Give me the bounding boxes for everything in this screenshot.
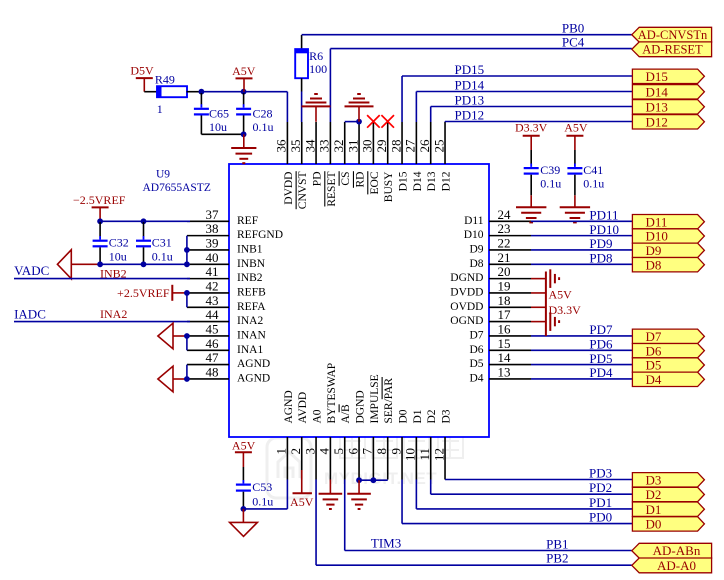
svg-text:C41: C41	[583, 163, 603, 177]
port D7	[632, 329, 704, 343]
pin 35 CNVST (top)	[288, 122, 309, 209]
wire PB2 net from pin 3	[316, 480, 632, 566]
wire PB1/TIM3 net from pin 5	[345, 480, 632, 551]
svg-text:PD0: PD0	[589, 510, 612, 525]
svg-text:DGND: DGND	[450, 272, 483, 284]
svg-text:21: 21	[498, 250, 511, 265]
capacitor C32	[93, 222, 129, 264]
svg-text:0.1u: 0.1u	[252, 494, 273, 508]
svg-text:29: 29	[374, 140, 389, 153]
svg-text:38: 38	[206, 221, 219, 236]
pin 34 PD (top)	[302, 122, 323, 186]
wire PD11 net from pin 24	[531, 220, 632, 222]
wire pins 47-48 tie	[186, 365, 188, 379]
svg-text:26: 26	[417, 139, 432, 153]
pin 12 D3 (bottom)	[431, 409, 452, 479]
pin 17 OGND (right)	[450, 307, 531, 327]
svg-text:REFA: REFA	[237, 301, 266, 313]
svg-text:EOC: EOC	[369, 171, 381, 194]
svg-text:23: 23	[498, 221, 511, 236]
svg-text:BYTESWAP: BYTESWAP	[326, 363, 338, 424]
svg-text:25: 25	[431, 140, 446, 153]
svg-text:D0: D0	[397, 409, 409, 423]
svg-text:5: 5	[331, 448, 346, 455]
port AD-RESET	[632, 42, 712, 57]
pin 6 DGND (bottom)	[345, 390, 366, 479]
svg-text:SER/PAR: SER/PAR	[383, 378, 395, 424]
svg-text:10: 10	[403, 448, 418, 461]
pin 28 D15 (top)	[388, 122, 409, 191]
pin 23 D10 (right)	[464, 221, 531, 241]
svg-text:42: 42	[206, 279, 219, 294]
ground below C41	[560, 195, 590, 222]
wire pin 18 OVDD stub	[531, 306, 546, 308]
svg-text:D7: D7	[646, 329, 662, 344]
node junction C31 bottom	[141, 261, 147, 267]
pin 45 INAN (left)	[187, 322, 266, 342]
wire pins 6-8 tie	[359, 479, 388, 481]
pin 40 INBN (left)	[187, 250, 266, 270]
svg-text:REFB: REFB	[237, 287, 266, 299]
svg-text:IADC: IADC	[14, 306, 46, 321]
svg-text:BUSY: BUSY	[383, 171, 395, 202]
node junction R49/C65	[199, 89, 205, 95]
svg-text:VADC: VADC	[14, 263, 49, 278]
pin 27 D14 (top)	[403, 122, 424, 191]
wire PD2 net from pin 11	[431, 480, 633, 495]
svg-text:27: 27	[403, 139, 418, 153]
node junction A5V/C28	[241, 89, 247, 95]
svg-text:D10: D10	[464, 229, 484, 241]
wire PD6 net from pin 15	[531, 349, 632, 351]
svg-text:U9: U9	[156, 168, 170, 180]
port D10	[632, 229, 704, 243]
pin 38 REFGND (left)	[187, 221, 283, 241]
svg-text:4: 4	[317, 448, 332, 455]
power port A5V (C41)	[564, 120, 588, 150]
svg-text:D0: D0	[646, 517, 662, 532]
pin 15 D6 (right)	[469, 336, 531, 356]
wire PD12 net from pin 25	[445, 121, 632, 124]
svg-text:+2.5VREF: +2.5VREF	[117, 286, 170, 300]
svg-text:TIM3: TIM3	[371, 536, 401, 551]
node junction pin 6	[356, 477, 362, 483]
svg-text:INA2: INA2	[237, 315, 263, 327]
power port -2.5VREF	[73, 193, 126, 221]
svg-text:RD: RD	[354, 172, 366, 188]
wire C65/C28 ground rail	[201, 133, 243, 135]
svg-text:DVDD: DVDD	[283, 172, 295, 205]
svg-text:MYDIGIT.NET: MYDIGIT.NET	[324, 469, 437, 488]
capacitor C39	[524, 150, 562, 195]
pin 32 CS (top)	[331, 122, 352, 186]
wire PD1 net from pin 10	[416, 480, 632, 509]
svg-text:INB2: INB2	[100, 266, 127, 280]
pin 48 AGND (left)	[187, 365, 270, 385]
wire VADC net to pin 41	[14, 278, 190, 280]
node junction pin 31	[356, 119, 362, 125]
port D14	[632, 85, 704, 99]
pin 2 AVDD (bottom)	[288, 392, 309, 480]
node junction pin 39	[184, 247, 190, 253]
svg-text:D1: D1	[646, 502, 662, 517]
wire PD14 net from pin 27	[416, 92, 632, 123]
svg-text:3: 3	[302, 448, 317, 455]
pin 43 REFA (left)	[187, 293, 266, 313]
input arrow AGND	[158, 366, 173, 392]
wire PB0 net	[302, 34, 632, 36]
svg-text:14: 14	[498, 350, 512, 365]
wire PD4 net from pin 13	[531, 378, 632, 380]
svg-text:AGND: AGND	[237, 358, 270, 370]
watermark	[267, 438, 311, 498]
pin 4 BYTESWAP (bottom)	[317, 363, 338, 480]
pin 5 A/B (bottom)	[331, 404, 352, 480]
svg-text:7: 7	[360, 448, 375, 455]
power port D3.3V (C39)	[515, 120, 548, 150]
svg-text:C31: C31	[152, 235, 172, 249]
svg-text:D6: D6	[469, 344, 483, 356]
input arrow VADC/INBN	[57, 250, 71, 279]
svg-text:OVDD: OVDD	[450, 301, 483, 313]
svg-text:D15: D15	[397, 171, 409, 191]
svg-text:CS: CS	[340, 172, 352, 186]
svg-text:D4: D4	[646, 372, 662, 387]
svg-text:INA1: INA1	[237, 344, 263, 356]
svg-text:INA2: INA2	[100, 307, 127, 321]
capacitor C41	[567, 150, 604, 195]
svg-text:D3: D3	[440, 409, 452, 423]
svg-text:PD10: PD10	[589, 222, 619, 237]
op-amp U9 AD7655ASTZ IC body	[229, 164, 489, 437]
power port +2.5VREF	[117, 285, 187, 301]
svg-text:AD-CNVSTn: AD-CNVSTn	[638, 28, 708, 42]
pin 47 AGND (left)	[187, 350, 270, 370]
svg-text:100: 100	[309, 62, 327, 76]
pin 20 DGND (right)	[450, 264, 531, 284]
svg-text:17: 17	[498, 307, 512, 322]
svg-text:A5V: A5V	[290, 495, 314, 509]
svg-text:REFGND: REFGND	[237, 229, 283, 241]
wire pin 17 OGND stub	[531, 321, 546, 323]
resistor R6	[295, 35, 327, 92]
svg-text:39: 39	[206, 236, 219, 251]
wire pin 19 DVDD stub	[531, 292, 546, 294]
wire REF net pin 37	[100, 220, 190, 222]
svg-text:PD5: PD5	[589, 351, 612, 366]
pin 10 D1 (bottom)	[403, 409, 424, 479]
pin 26 D13 (top)	[417, 122, 438, 191]
port D0	[632, 517, 704, 531]
wire CS to RD jumper	[345, 121, 359, 123]
port D12	[632, 115, 704, 129]
svg-text:44: 44	[206, 307, 220, 322]
svg-text:D9: D9	[646, 243, 662, 258]
no-connect X on pin 30 EOC	[367, 115, 380, 128]
node junction C32 top	[97, 218, 103, 224]
svg-text:20: 20	[498, 264, 511, 279]
svg-text:PB0: PB0	[562, 21, 584, 36]
power bar rail pins 20-17	[545, 272, 547, 337]
capacitor C65	[194, 93, 229, 134]
ground below C39	[516, 195, 546, 222]
svg-text:PD15: PD15	[455, 62, 485, 77]
svg-text:31: 31	[345, 140, 360, 153]
port D9	[632, 243, 704, 257]
node junction pin 42	[184, 290, 190, 296]
pin 11 D2 (bottom)	[417, 409, 438, 479]
ground on pin 31 RD (flipped)	[345, 94, 374, 122]
svg-text:RESET: RESET	[326, 172, 338, 207]
svg-text:AD-A0: AD-A0	[657, 558, 696, 573]
power port A5V pin 2 AVDD	[290, 470, 314, 509]
svg-text:PD2: PD2	[589, 480, 612, 495]
svg-text:IMPULSE: IMPULSE	[369, 374, 381, 423]
svg-text:24: 24	[498, 207, 512, 222]
svg-text:36: 36	[274, 139, 289, 153]
ground pin 4 BYTESWAP	[319, 480, 343, 510]
svg-text:DGND: DGND	[354, 390, 366, 423]
svg-text:D13: D13	[646, 100, 668, 115]
wire pins 42-43 tie	[186, 293, 188, 307]
svg-text:1: 1	[157, 102, 163, 116]
svg-text:48: 48	[206, 365, 219, 380]
port D5	[632, 358, 704, 372]
svg-text:OGND: OGND	[450, 315, 483, 327]
capacitor C53	[236, 467, 273, 509]
port D15	[632, 69, 704, 83]
pin 41 INB2 (left)	[187, 264, 263, 284]
power port A5V (C53)	[232, 438, 256, 467]
svg-text:33: 33	[317, 140, 332, 153]
no-connect X on pin 29 BUSY	[381, 115, 394, 128]
svg-text:C53: C53	[252, 480, 272, 494]
pin 3 A0 (bottom)	[302, 409, 323, 479]
node junction pin 45	[184, 333, 190, 339]
node junction C53 bottom	[241, 506, 247, 512]
wire R6 to pin 35	[301, 92, 303, 123]
port AD-ABn	[632, 543, 712, 558]
svg-text:10u: 10u	[109, 250, 127, 264]
svg-text:0.1u: 0.1u	[583, 177, 604, 191]
svg-text:D3: D3	[646, 473, 662, 488]
svg-text:PD12: PD12	[455, 108, 485, 123]
svg-text:AD7655ASTZ: AD7655ASTZ	[143, 182, 211, 194]
svg-text:D11: D11	[464, 215, 484, 227]
wire INBN rail	[100, 263, 190, 265]
svg-text:8: 8	[374, 448, 389, 455]
svg-text:9: 9	[388, 448, 403, 455]
svg-text:D3.3V: D3.3V	[515, 120, 548, 134]
node junction INBN rail / pin 40	[184, 261, 190, 267]
wire pins 38-40 tie	[186, 236, 188, 265]
wire PD10 net from pin 23	[531, 235, 632, 237]
pin 1 AGND (bottom)	[274, 390, 295, 479]
pin 14 D5 (right)	[469, 350, 531, 370]
svg-text:PD4: PD4	[589, 365, 613, 380]
port AD-CNVSTn	[632, 27, 712, 42]
wire pin 20 DGND stub	[531, 278, 546, 280]
svg-text:19: 19	[498, 279, 511, 294]
svg-text:PD3: PD3	[589, 466, 612, 481]
node junction pin 7	[370, 477, 376, 483]
svg-text:AGND: AGND	[237, 373, 270, 385]
svg-text:PD: PD	[311, 172, 323, 187]
pin 42 REFB (left)	[187, 279, 266, 299]
svg-text:D10: D10	[646, 229, 668, 244]
wire PD8 net from pin 21	[531, 263, 632, 265]
svg-text:D14: D14	[646, 85, 669, 100]
wire PD9 net from pin 22	[531, 249, 632, 251]
wire IADC net to pin 44	[14, 321, 190, 323]
ground (rotated) pin 17	[549, 312, 551, 331]
svg-text:0.1u: 0.1u	[152, 250, 173, 264]
svg-text:R49: R49	[155, 73, 175, 87]
svg-text:45: 45	[206, 322, 219, 337]
svg-text:32: 32	[331, 140, 346, 153]
ground on pin 34 PD (flipped)	[302, 94, 331, 122]
svg-text:−2.5VREF: −2.5VREF	[73, 193, 126, 207]
svg-text:D9: D9	[469, 244, 483, 256]
svg-text:AGND: AGND	[283, 390, 295, 423]
wire arrow to C32	[71, 263, 100, 265]
pin 39 INB1 (left)	[187, 236, 263, 256]
port D1	[632, 502, 704, 516]
wire arrow to pin 48	[173, 378, 187, 380]
svg-text:35: 35	[288, 140, 303, 153]
pin 33 RESET (top)	[317, 122, 338, 207]
wire C53 to pin 1	[243, 480, 287, 509]
port D4	[632, 372, 704, 386]
svg-text:34: 34	[302, 139, 317, 153]
svg-text:D5: D5	[469, 358, 483, 370]
svg-text:46: 46	[206, 336, 220, 351]
wire PD7 net from pin 16	[531, 335, 632, 337]
pin 36 DVDD (top)	[274, 122, 295, 205]
wire PD3 net from pin 12	[445, 479, 632, 481]
pin 25 D12 (top)	[431, 122, 452, 191]
svg-text:C39: C39	[540, 163, 560, 177]
svg-text:D15: D15	[646, 69, 668, 84]
svg-text:1: 1	[274, 448, 289, 455]
wire A5V rail to pin 36	[202, 91, 287, 93]
svg-text:D6: D6	[646, 343, 662, 358]
svg-text:A5V: A5V	[232, 438, 256, 452]
svg-text:30: 30	[360, 140, 375, 153]
wire PC4 net from pin 33	[330, 49, 631, 122]
svg-text:INB2: INB2	[237, 272, 263, 284]
svg-text:PD6: PD6	[589, 336, 613, 351]
pin 9 D0 (bottom)	[388, 409, 409, 479]
svg-text:PD8: PD8	[589, 250, 612, 265]
svg-text:PD11: PD11	[589, 208, 618, 223]
svg-text:A/B: A/B	[340, 404, 352, 424]
svg-text:D12: D12	[440, 171, 452, 191]
port D3	[632, 473, 704, 487]
svg-text:PD13: PD13	[455, 93, 485, 108]
svg-text:47: 47	[206, 350, 220, 365]
pin 18 OVDD (right)	[450, 293, 531, 313]
pin 46 INA1 (left)	[187, 336, 263, 356]
pin 22 D9 (right)	[469, 236, 531, 256]
ground below C65/C28	[231, 134, 256, 163]
svg-text:A5V: A5V	[232, 64, 256, 78]
svg-text:INAN: INAN	[237, 330, 266, 342]
svg-text:PD14: PD14	[455, 78, 485, 93]
port D13	[632, 100, 704, 114]
svg-text:2: 2	[288, 448, 303, 455]
svg-text:A0: A0	[311, 409, 323, 423]
pin 7 IMPULSE (bottom)	[360, 374, 381, 479]
wire PD13 net from pin 26	[431, 107, 633, 123]
node junction C28 ground	[241, 131, 247, 137]
port D2	[632, 487, 704, 501]
pin 24 D11 (right)	[464, 207, 531, 227]
svg-text:11: 11	[417, 448, 432, 461]
svg-text:D12: D12	[646, 115, 668, 130]
svg-text:A5V: A5V	[564, 120, 588, 134]
svg-text:PB1: PB1	[546, 537, 568, 552]
svg-text:43: 43	[206, 293, 219, 308]
wire PD15 net from pin 28	[402, 76, 632, 122]
svg-text:D8: D8	[646, 257, 662, 272]
ground (rotated) pin 20	[549, 269, 551, 288]
svg-text:PD1: PD1	[589, 495, 612, 510]
input arrow INAN	[158, 323, 173, 349]
svg-text:PD7: PD7	[589, 322, 613, 337]
node junction C31 top	[141, 218, 147, 224]
svg-text:D3.3V: D3.3V	[549, 303, 582, 317]
svg-text:AD-RESET: AD-RESET	[642, 43, 703, 57]
svg-text:D7: D7	[469, 330, 483, 342]
node junction C32 bottom	[97, 261, 103, 267]
ground pin 6 DGND	[347, 480, 371, 509]
wire D5V to R49	[144, 91, 157, 93]
svg-text:D5: D5	[646, 358, 662, 373]
svg-text:CNVST: CNVST	[297, 172, 309, 210]
svg-text:C32: C32	[109, 235, 129, 249]
wire PD5 net from pin 14	[531, 364, 632, 366]
svg-text:C28: C28	[253, 107, 273, 121]
svg-text:D14: D14	[412, 171, 424, 191]
svg-text:D13: D13	[426, 171, 438, 191]
svg-text:0.1u: 0.1u	[253, 120, 274, 134]
svg-text:INB1: INB1	[237, 244, 263, 256]
pin 21 D8 (right)	[469, 250, 531, 270]
svg-text:PD9: PD9	[589, 236, 612, 251]
capacitor C28	[236, 93, 273, 134]
svg-text:PB2: PB2	[546, 551, 568, 566]
pin 37 REF (left)	[187, 207, 258, 227]
pin 19 DVDD (right)	[450, 279, 531, 299]
capacitor C31	[136, 222, 173, 264]
svg-text:REF: REF	[237, 215, 258, 227]
svg-text:0.1u: 0.1u	[540, 177, 561, 191]
svg-text:PC4: PC4	[562, 35, 585, 50]
svg-text:28: 28	[388, 140, 403, 153]
svg-text:40: 40	[206, 250, 219, 265]
svg-text:22: 22	[498, 236, 511, 251]
pin 13 D4 (right)	[469, 365, 531, 385]
svg-text:16: 16	[498, 322, 512, 337]
svg-text:18: 18	[498, 293, 511, 308]
svg-text:13: 13	[498, 365, 511, 380]
pin 8 SER/PAR (bottom)	[374, 377, 395, 480]
svg-text:D2: D2	[646, 487, 662, 502]
svg-text:D5V: D5V	[130, 64, 154, 78]
svg-text:DVDD: DVDD	[450, 287, 483, 299]
resistor R49	[155, 73, 187, 116]
